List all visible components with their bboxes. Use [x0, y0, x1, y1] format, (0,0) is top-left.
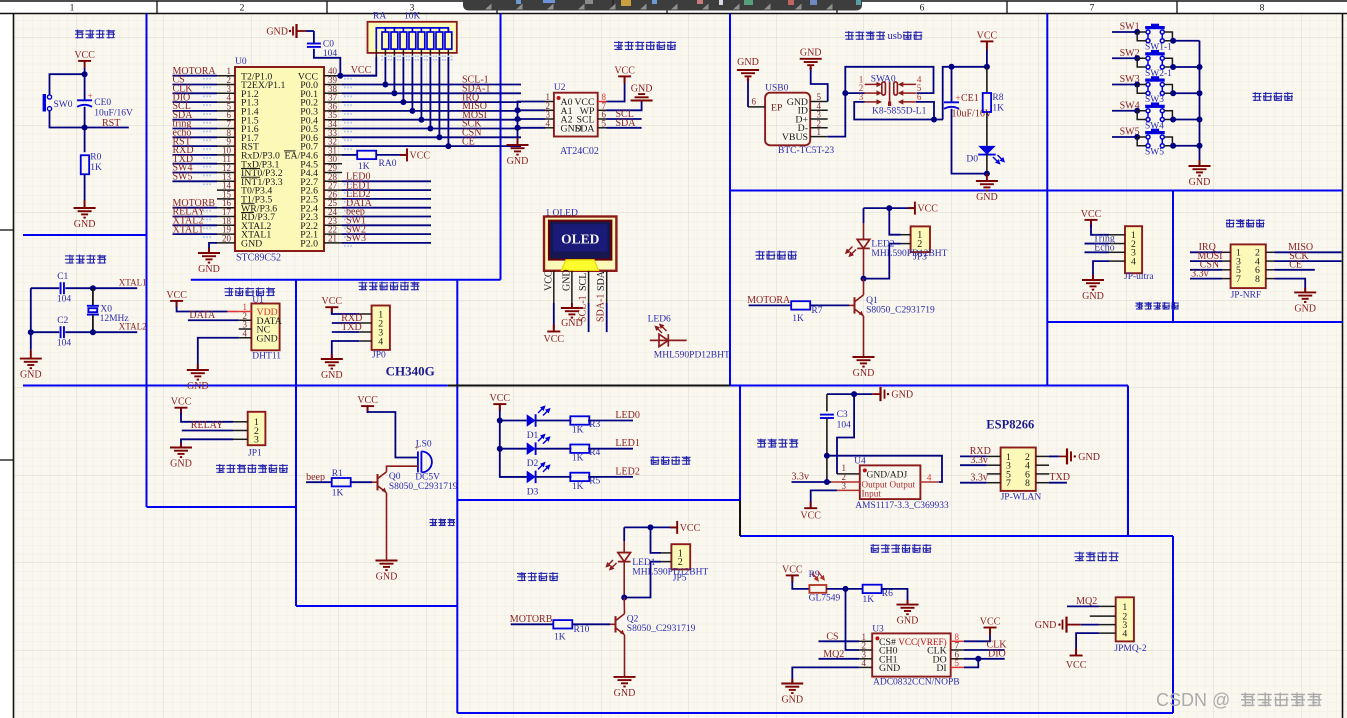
sheet border left ruler — [0, 229, 14, 231]
svg-text:VBUS: VBUS — [782, 132, 808, 143]
svg-text:4: 4 — [1122, 629, 1127, 640]
wire — [986, 48, 988, 66]
net label tring (U0 pin 7) — [173, 128, 218, 130]
wire — [92, 315, 94, 333]
net label LED0 (U0 pin 28) — [342, 180, 431, 182]
svg-text:SDA: SDA — [596, 270, 607, 291]
net label CE — [342, 145, 521, 147]
svg-text:RELAY: RELAY — [191, 420, 223, 431]
module title 掉电存储模块 — [614, 41, 676, 50]
wire — [1067, 605, 1099, 607]
wire — [588, 303, 590, 332]
junction — [82, 71, 88, 77]
svg-text:1: 1 — [70, 4, 75, 14]
wire — [1164, 66, 1173, 68]
svg-text:GND: GND — [614, 688, 636, 699]
svg-text:GND: GND — [1189, 177, 1211, 188]
wire — [846, 589, 860, 650]
power VCC — [670, 521, 677, 534]
wire — [1164, 92, 1173, 94]
net label CS (U0 pin 2) — [173, 84, 218, 86]
svg-text:10uF/16V: 10uF/16V — [94, 109, 133, 119]
junction — [886, 205, 892, 211]
svg-text:1K: 1K — [572, 426, 584, 436]
wire — [1076, 633, 1099, 655]
push button SW5 — [1151, 129, 1159, 132]
mcu U0 body — [235, 67, 324, 251]
svg-text:2: 2 — [240, 4, 245, 14]
svg-text:JP-NRF: JP-NRF — [1231, 291, 1262, 301]
wire — [837, 394, 854, 474]
svg-text:CE1: CE1 — [961, 93, 979, 104]
svg-text:JP1: JP1 — [248, 448, 262, 458]
wire — [607, 118, 642, 120]
module title 电机模块 — [756, 251, 797, 260]
svg-text:SW5: SW5 — [1145, 148, 1164, 158]
wire — [31, 287, 59, 289]
wire — [792, 667, 859, 683]
svg-text:+: + — [956, 93, 961, 103]
wire — [182, 430, 233, 432]
svg-text:7: 7 — [1090, 4, 1095, 14]
wire — [964, 649, 1005, 651]
module title 烧录模块插针 — [359, 282, 420, 291]
wire — [1173, 66, 1199, 68]
svg-text:S8050_C2931719: S8050_C2931719 — [389, 482, 458, 492]
ground — [170, 448, 192, 458]
resistor array RA — [368, 22, 457, 53]
svg-text:DHT11: DHT11 — [252, 352, 281, 362]
ground — [187, 370, 209, 380]
svg-text:JP-WLAN: JP-WLAN — [1001, 493, 1042, 503]
power VCC — [618, 76, 631, 83]
wire — [811, 68, 828, 101]
junction — [984, 64, 990, 70]
svg-text:EP: EP — [771, 103, 783, 114]
wire — [607, 127, 642, 129]
svg-text:CE0: CE0 — [94, 98, 111, 108]
svg-text:VCC: VCC — [980, 617, 1001, 628]
svg-text:VCC: VCC — [1066, 660, 1087, 671]
wire — [651, 527, 662, 553]
wire — [1112, 84, 1137, 86]
svg-text:MOTORA: MOTORA — [747, 295, 791, 306]
USB0 pins — [810, 101, 828, 103]
wire — [31, 331, 59, 333]
wire — [819, 640, 860, 642]
push button SW3 — [1151, 76, 1159, 79]
svg-text:104: 104 — [837, 421, 852, 431]
wire — [181, 408, 233, 422]
svg-text:GND: GND — [74, 219, 96, 230]
svg-text:6: 6 — [920, 4, 925, 14]
net label LED1 — [588, 448, 633, 450]
svg-text:BTC-TC5T-23: BTC-TC5T-23 — [778, 146, 834, 156]
OLED pins — [553, 271, 555, 303]
svg-text:GND: GND — [800, 48, 822, 59]
wire — [84, 174, 86, 208]
junction — [824, 453, 830, 459]
ground — [561, 308, 583, 318]
wire U4 pin4 output loop — [920, 481, 939, 483]
svg-text:GND: GND — [1035, 620, 1057, 631]
mcu U0 pins — [217, 75, 235, 77]
resistor R4 — [536, 448, 572, 450]
svg-text:4: 4 — [546, 118, 551, 128]
svg-text:C2: C2 — [57, 316, 68, 326]
wire — [1173, 40, 1199, 42]
svg-text:3.3v: 3.3v — [792, 472, 810, 483]
push button SW1-1 — [1151, 24, 1159, 27]
svg-text:GND: GND — [561, 269, 572, 291]
net label SW5 (U0 pin 13) — [173, 180, 218, 182]
svg-text:10K: 10K — [404, 12, 421, 22]
net label MOSI — [342, 119, 521, 121]
led D3 — [500, 476, 527, 478]
svg-text:1: 1 — [817, 127, 822, 137]
svg-text:GND: GND — [187, 381, 209, 392]
wire — [1085, 243, 1110, 245]
resistor R0 — [81, 155, 89, 174]
svg-text:D1: D1 — [527, 431, 539, 441]
wire — [314, 49, 340, 76]
wire — [342, 154, 357, 156]
svg-text:1K: 1K — [863, 595, 875, 605]
wire — [964, 659, 979, 668]
svg-text:U0: U0 — [235, 57, 247, 67]
module title 温度传感器 — [225, 287, 275, 296]
wire — [828, 67, 934, 137]
wire — [881, 589, 907, 605]
svg-text:R0: R0 — [90, 153, 101, 163]
net label beep (U0 pin 24) — [342, 216, 431, 218]
wire — [177, 301, 228, 312]
svg-text:U3: U3 — [872, 625, 884, 635]
svg-text:VCC: VCC — [322, 296, 343, 307]
net label IRQ — [342, 101, 521, 103]
junction — [28, 329, 34, 335]
svg-text:GND: GND — [507, 156, 529, 167]
net label RELAY (U0 pin 17) — [173, 216, 218, 218]
svg-text:SW5: SW5 — [173, 172, 193, 183]
svg-text:SDA: SDA — [575, 123, 595, 134]
svg-text:GND: GND — [1082, 291, 1104, 302]
RA output wires to P0 bus rows — [384, 57, 386, 85]
wire Q2 emitter to ground — [624, 635, 626, 677]
connector JP-ultra — [1125, 226, 1142, 273]
power VCC — [1085, 220, 1098, 227]
svg-text:MHL590PD12BHT: MHL590PD12BHT — [654, 351, 730, 361]
svg-text:GND: GND — [737, 57, 759, 68]
power VCC — [400, 148, 407, 161]
wire Q2 collector — [623, 598, 625, 614]
resistor R8 — [986, 67, 988, 94]
svg-text:3.3v: 3.3v — [1191, 268, 1209, 279]
connector JP-NRF — [1231, 244, 1266, 288]
net label SCL-1 — [342, 84, 521, 86]
wire — [1112, 57, 1137, 59]
wire — [845, 92, 864, 94]
resistor R10 — [553, 620, 572, 628]
wire — [960, 455, 987, 457]
wire — [571, 303, 573, 308]
svg-text:P2.0: P2.0 — [300, 239, 318, 250]
net label echo (U0 pin 8) — [173, 136, 218, 138]
svg-text:104: 104 — [57, 339, 72, 349]
power VCC — [175, 408, 188, 415]
module title 光照处理模块 — [871, 544, 932, 553]
capacitor C3 — [820, 415, 834, 418]
module title 晶振电路 — [65, 255, 106, 264]
svg-text:Q0: Q0 — [389, 472, 401, 482]
svg-text:LED1: LED1 — [632, 558, 655, 568]
adc U3 body — [872, 633, 951, 676]
push button SW4 — [1151, 102, 1159, 105]
svg-text:1K: 1K — [554, 633, 566, 643]
svg-text:GND: GND — [376, 572, 398, 583]
boundary black segments — [448, 385, 730, 387]
junction — [90, 329, 96, 335]
wire — [84, 107, 86, 152]
svg-text:GND: GND — [631, 84, 653, 95]
svg-text:104: 104 — [323, 49, 338, 59]
junction — [1170, 117, 1176, 123]
svg-text:CSDN @: CSDN @ — [1156, 690, 1230, 710]
wire — [607, 76, 625, 101]
svg-text:C0: C0 — [323, 40, 334, 50]
svg-text:VCC: VCC — [800, 511, 821, 522]
svg-text:4: 4 — [927, 472, 932, 482]
svg-text:6: 6 — [917, 92, 922, 102]
net label XTAL2 (U0 pin 18) — [173, 224, 218, 226]
wire — [1137, 136, 1146, 138]
svg-text:1K: 1K — [572, 482, 584, 492]
svg-text:R1: R1 — [332, 469, 343, 479]
svg-text:GND: GND — [853, 368, 875, 379]
regulator U4 AMS1117 — [860, 465, 921, 499]
svg-text:SCL: SCL — [578, 273, 589, 291]
svg-text:R4: R4 — [589, 448, 600, 458]
svg-text:GND: GND — [266, 27, 288, 38]
power VCC (U4 input) — [804, 502, 817, 508]
svg-text:LED6: LED6 — [648, 315, 671, 325]
svg-text:ESP8266: ESP8266 — [986, 418, 1034, 432]
svg-text:U4: U4 — [854, 457, 866, 467]
wire — [332, 307, 359, 314]
ground — [1189, 166, 1211, 176]
module title 超声波模块 — [1136, 302, 1179, 310]
wire — [1275, 260, 1342, 262]
power VCC — [78, 61, 91, 68]
svg-text:8: 8 — [1260, 4, 1265, 14]
svg-text:4: 4 — [243, 328, 248, 338]
wire — [960, 482, 987, 484]
svg-text:ADC0832CCN/NOPB: ADC0832CCN/NOPB — [873, 678, 960, 688]
wire — [1112, 110, 1137, 112]
svg-text:VCC: VCC — [543, 270, 554, 291]
svg-text:S8050_C2931719: S8050_C2931719 — [866, 305, 935, 315]
svg-text:K8-5855D-L1: K8-5855D-L1 — [872, 107, 927, 117]
wire — [376, 154, 407, 156]
wire — [1164, 58, 1172, 67]
wire — [50, 74, 85, 95]
ground — [781, 684, 803, 694]
ground port (divider) — [872, 387, 884, 401]
svg-text:CH340G: CH340G — [386, 364, 435, 379]
junction — [1170, 90, 1176, 96]
module title 分压电路 — [757, 439, 798, 448]
wire — [181, 439, 233, 447]
power VCC — [325, 307, 338, 314]
wire — [65, 287, 137, 289]
wire — [306, 30, 314, 32]
svg-text:3: 3 — [254, 435, 259, 446]
wire — [1049, 482, 1067, 484]
wire — [572, 623, 610, 625]
svg-text:1K: 1K — [992, 104, 1004, 114]
svg-text:8: 8 — [1255, 274, 1260, 285]
wire — [188, 319, 239, 321]
svg-text:6: 6 — [752, 97, 757, 107]
module title 复位电路 — [75, 30, 115, 39]
resistor R7 — [791, 301, 810, 309]
svg-text:4: 4 — [378, 336, 383, 347]
capacitor C2 — [61, 326, 64, 338]
wire — [1137, 58, 1146, 67]
svg-text:R7: R7 — [811, 306, 822, 316]
ground — [20, 359, 42, 369]
wire — [952, 109, 987, 174]
transistor Q2 — [615, 616, 617, 632]
svg-text:VCC: VCC — [410, 150, 431, 161]
svg-text:R6: R6 — [882, 589, 893, 599]
svg-text:DIO: DIO — [988, 648, 1006, 659]
power VCC — [984, 628, 997, 635]
wire — [1190, 269, 1222, 271]
svg-text:SCL-1: SCL-1 — [578, 295, 589, 322]
eeprom U2 body — [554, 93, 598, 137]
net label MISO — [342, 110, 521, 112]
svg-text:U2: U2 — [554, 83, 566, 93]
module title 继电器控制模块 — [216, 464, 288, 473]
wire — [792, 481, 832, 483]
wire — [511, 623, 554, 625]
wire — [30, 288, 32, 350]
junction — [1134, 82, 1140, 88]
svg-text:MHL590PD12BHT: MHL590PD12BHT — [632, 568, 708, 578]
svg-text:VCC: VCC — [357, 395, 378, 406]
wire — [1190, 260, 1222, 262]
svg-text:C1: C1 — [57, 272, 68, 282]
resistor R3 — [536, 420, 572, 422]
power ground port (C0) — [293, 24, 306, 38]
resistor R5 — [536, 476, 572, 478]
svg-text:usb: usb — [888, 31, 903, 42]
svg-text:GND: GND — [781, 695, 803, 706]
wire Q1 collector — [863, 279, 865, 295]
wire — [1112, 136, 1137, 138]
svg-text:D0: D0 — [966, 155, 978, 165]
svg-text:XTAL1: XTAL1 — [173, 224, 204, 235]
net label XTAL1 (U0 pin 19) — [173, 233, 218, 235]
wire — [306, 481, 332, 483]
wire — [1275, 251, 1342, 253]
svg-text:1K: 1K — [572, 454, 584, 464]
svg-text:DI: DI — [936, 663, 946, 674]
junction — [931, 117, 937, 123]
ground — [74, 208, 96, 218]
svg-text:GND: GND — [198, 264, 220, 275]
wire — [889, 208, 901, 235]
led D1 — [500, 420, 527, 422]
svg-text:XTAL2: XTAL2 — [119, 322, 147, 332]
net label SDA (U0 pin 6) — [173, 119, 218, 121]
net label SW2 (U0 pin 22) — [342, 233, 431, 235]
wire — [1137, 31, 1146, 33]
wire — [84, 68, 86, 100]
net label SCL (U0 pin 5) — [173, 110, 218, 112]
module title 烟雾检测 — [1075, 552, 1119, 562]
ground — [1082, 280, 1104, 290]
svg-text:TXD: TXD — [1049, 472, 1070, 483]
wire — [85, 127, 129, 129]
net label SW1 (U0 pin 23) — [342, 224, 431, 226]
ground — [631, 94, 653, 100]
wire — [553, 303, 555, 329]
junction — [1134, 55, 1140, 61]
connector JPMQ-2 — [1116, 597, 1134, 641]
wire — [1275, 269, 1315, 271]
junction — [90, 285, 96, 291]
wire — [1137, 110, 1146, 112]
svg-text:LED1: LED1 — [615, 438, 639, 449]
svg-text:GND: GND — [1078, 452, 1100, 463]
svg-text:VCC: VCC — [917, 204, 938, 215]
wire — [826, 588, 863, 590]
svg-text:XTAL1: XTAL1 — [119, 278, 147, 288]
svg-text:7: 7 — [1006, 478, 1011, 489]
net label CLK (U0 pin 3) — [173, 92, 218, 94]
svg-text:104: 104 — [57, 295, 72, 305]
push button SW2-1 — [1151, 50, 1159, 53]
wire — [1190, 278, 1222, 280]
OLED flex tab — [562, 260, 599, 271]
svg-text:SDA: SDA — [616, 118, 637, 129]
net label SCK — [342, 128, 521, 130]
svg-text:MOTORB: MOTORB — [510, 614, 553, 625]
wire — [500, 404, 527, 477]
wire — [1173, 92, 1199, 94]
svg-text:SWA0: SWA0 — [871, 75, 896, 85]
junction — [497, 418, 503, 424]
connector JP3 — [911, 226, 930, 252]
wire Q0 collector to speaker — [387, 466, 418, 472]
wire — [332, 322, 359, 324]
connector JP5 — [671, 544, 690, 569]
svg-text:X0: X0 — [100, 305, 112, 315]
svg-text:RA: RA — [373, 12, 386, 22]
wire — [332, 331, 359, 333]
wire — [1164, 32, 1172, 41]
wire — [351, 481, 372, 483]
net label RXD (U0 pin 10) — [173, 154, 218, 156]
switch SW0 — [43, 94, 46, 112]
svg-text:GND: GND — [241, 239, 262, 250]
svg-text:LED0: LED0 — [615, 410, 639, 421]
wire — [811, 490, 837, 508]
svg-text:RA0: RA0 — [379, 159, 397, 169]
svg-text:1K: 1K — [90, 163, 102, 173]
